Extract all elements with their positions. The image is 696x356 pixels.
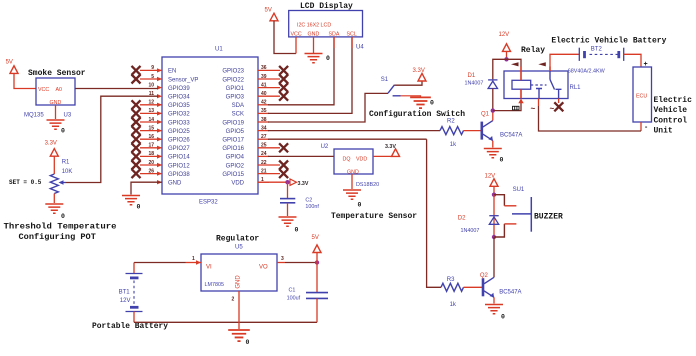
wire buzzer top lead end (504, 205, 516, 207)
svg-text:I2C 16X2 LCD: I2C 16X2 LCD (297, 22, 331, 28)
svg-text:GPIO34: GPIO34 (168, 95, 190, 101)
svg-text:U1: U1 (215, 47, 223, 53)
svg-text:26: 26 (148, 168, 154, 174)
svg-text:Electric Vehicle Battery: Electric Vehicle Battery (551, 37, 666, 46)
svg-text:Temperature Sensor: Temperature Sensor (331, 212, 417, 221)
wire relay common to BT2 (550, 54, 579, 66)
switch S1 (388, 85, 401, 96)
wire GPIO17 net vertical (427, 139, 441, 287)
svg-text:Threshold Temperature: Threshold Temperature (4, 222, 117, 232)
svg-text:12: 12 (148, 100, 154, 106)
power symbol 12V relay (503, 44, 511, 52)
U1 right pin GPIO23 (222, 65, 280, 75)
svg-text:D1: D1 (468, 73, 476, 79)
svg-text:Regulator: Regulator (216, 235, 259, 244)
U1 left pin GPIO33 (140, 117, 190, 127)
svg-text:34: 34 (261, 125, 267, 131)
svg-text:VCC: VCC (38, 87, 49, 93)
ground C2 (279, 217, 297, 226)
junction 12V relay node (504, 57, 508, 61)
R1 wiper arrow (60, 182, 66, 184)
svg-text:18: 18 (148, 151, 154, 157)
svg-text:Smoke Sensor: Smoke Sensor (28, 69, 86, 78)
wire relay NC stub (558, 99, 560, 104)
svg-text:MQ135: MQ135 (24, 113, 44, 119)
wire buzzer bottom lead corner (494, 224, 504, 237)
wire U5 GND to ground (238, 291, 240, 329)
wire node to C1 top (316, 263, 318, 293)
wire BT2 to ECU + (624, 54, 641, 67)
svg-text:25: 25 (261, 143, 267, 149)
svg-text:9: 9 (151, 65, 154, 71)
wire U4 SCL to U1 SCK (268, 37, 352, 114)
wire Q1 emitter to ground (492, 141, 494, 148)
wire VI stub (186, 262, 202, 264)
svg-text:GND: GND (347, 170, 359, 176)
svg-text:SCL: SCL (347, 32, 357, 38)
svg-text:DQ: DQ (343, 156, 351, 162)
wire Q1 collector up (492, 111, 494, 121)
svg-text:BT2: BT2 (591, 46, 603, 52)
svg-text:C2: C2 (305, 197, 312, 203)
battery BT1 (126, 274, 143, 312)
U1 left pin GPIO34 (149, 91, 191, 101)
wire R1 bottom to ground (53, 194, 55, 204)
U1 left pin GPIO39 (148, 82, 190, 92)
wire ECU - lead (640, 122, 642, 131)
power symbol 5V regulator output (313, 245, 321, 253)
svg-text:GPIO5: GPIO5 (226, 129, 245, 135)
resistor R3 (441, 283, 464, 291)
wire U2 GND stub (351, 174, 353, 189)
svg-text:R2: R2 (447, 118, 455, 124)
U1 right pin SCK (232, 108, 269, 118)
svg-text:Control: Control (654, 116, 688, 125)
transistor Q2 (BC547A) (483, 277, 494, 297)
wire buzzer bottom lead end (504, 223, 516, 225)
svg-text:14: 14 (148, 117, 154, 123)
svg-text:GPIO33: GPIO33 (168, 120, 190, 126)
no-connect X U1 pin 41 (GPIO1) (279, 83, 288, 92)
wire D1 anode to Q1 collector node (492, 89, 494, 111)
diode D2 (489, 216, 498, 225)
svg-text:BUZZER: BUZZER (534, 212, 563, 221)
svg-text:1: 1 (192, 256, 195, 262)
transistor Q1 (BC547A) (482, 121, 493, 141)
svg-text:DS18B20: DS18B20 (356, 182, 379, 188)
svg-text:GND: GND (236, 275, 242, 289)
svg-text:GPIO22: GPIO22 (222, 77, 244, 83)
no-connect X U1 pin 5 (Sensor_VP) (132, 75, 141, 84)
svg-text:5V: 5V (265, 8, 272, 14)
svg-text:3.3V: 3.3V (298, 181, 309, 187)
wire 12V stem (506, 51, 508, 59)
wire U1 VDD to 3.3V node (258, 181, 286, 183)
no-connect X U1 pin 40 (GPIO3) (279, 92, 288, 101)
svg-text:0: 0 (61, 213, 65, 220)
U1 left pin GPIO27 (140, 143, 190, 153)
wire 3.3V to R1 top (53, 156, 55, 174)
wire U4 GND stub (313, 37, 315, 53)
LCD display U4 body (289, 11, 363, 37)
svg-text:GPIO19: GPIO19 (222, 120, 244, 126)
relay RL1 coil-contact link (dashed) (531, 84, 547, 86)
junction VDD/C2 node (285, 180, 289, 184)
no-connect X U1 pin 25 (GPIO16) (279, 143, 288, 152)
power symbol 5V smoke sensor (10, 66, 18, 74)
ground regulator U5 (228, 330, 250, 341)
junction buzzer bottom node (492, 235, 496, 239)
wire U3 GND stub (55, 105, 57, 119)
wire U1 GPIO17 to buzzer net (268, 138, 427, 140)
svg-text:Q1: Q1 (481, 111, 490, 117)
wire VO stub (277, 262, 285, 264)
svg-text:SET = 0.5: SET = 0.5 (9, 179, 42, 186)
junction buzzer top node (492, 193, 496, 197)
svg-text:GPIO1: GPIO1 (226, 86, 245, 92)
power symbol 3.3V temp sensor (392, 149, 400, 157)
no-connect X U1 pin 36 (GPIO23) (279, 66, 288, 75)
svg-text:36: 36 (261, 65, 267, 71)
svg-text:GPIO38: GPIO38 (168, 172, 190, 178)
svg-text:100uf: 100uf (287, 296, 301, 302)
wire 5V stem (316, 253, 318, 263)
ground LCD (305, 54, 323, 63)
svg-text:3: 3 (281, 256, 284, 262)
wire U4 SCL stub (351, 37, 353, 48)
svg-text:35: 35 (261, 108, 267, 114)
svg-text:~: ~ (531, 105, 536, 114)
battery BT2 (579, 48, 623, 61)
svg-text:10: 10 (148, 82, 154, 88)
svg-text:68V40A/2.4KW: 68V40A/2.4KW (568, 68, 606, 74)
svg-text:RL1: RL1 (570, 85, 582, 91)
svg-text:GND: GND (168, 181, 182, 187)
U1 right pin GPIO19 (222, 117, 269, 127)
wire R2 to Q1 base (464, 130, 482, 132)
svg-text:R3: R3 (447, 277, 455, 283)
svg-text:Unit: Unit (654, 126, 673, 135)
wire ECU - to relay NO (539, 106, 642, 131)
svg-text:0: 0 (358, 202, 362, 209)
svg-text:39: 39 (261, 74, 267, 80)
power symbol 3.3V U1 VDD (290, 179, 297, 185)
svg-text:1k: 1k (450, 142, 457, 148)
no-connect X relay NC pin (554, 102, 563, 111)
no-connect X U1 pin 13 (GPIO32) (132, 109, 141, 118)
wire U2 VDD to 3.3V (373, 155, 392, 157)
relay RL1 coil pins (520, 67, 522, 99)
U1 right pin SDA (232, 100, 269, 110)
svg-text:1k: 1k (450, 302, 457, 308)
no-connect X U1 pin 21 (GPIO15) (279, 169, 288, 178)
no-connect X U1 pin 15 (GPIO25) (132, 126, 141, 135)
wire U3 A0 to U1 GPIO39 (75, 88, 158, 90)
svg-text:VDD: VDD (356, 156, 367, 162)
wire S1 to 3.3V (395, 81, 423, 85)
svg-text:Sensor_VP: Sensor_VP (168, 77, 198, 83)
svg-text:Electric: Electric (654, 96, 693, 105)
no-connect X U1 pin 39 (GPIO22) (279, 75, 288, 84)
wire buzzer node to Q2 collector (493, 237, 495, 277)
U1 left pin GPIO35 (140, 100, 190, 110)
wire S1 to ground (401, 96, 421, 97)
U1 left pin GND (157, 180, 182, 187)
wire relay NO stub (538, 99, 540, 107)
svg-text:U4: U4 (356, 45, 364, 51)
svg-text:10K: 10K (62, 169, 73, 175)
svg-text:5: 5 (151, 74, 154, 80)
svg-text:EN: EN (168, 69, 176, 75)
svg-text:0: 0 (501, 314, 505, 321)
svg-text:BC547A: BC547A (499, 290, 521, 296)
svg-text:GPIO35: GPIO35 (168, 103, 190, 109)
no-connect X U1 pin 20 (GPIO12) (132, 161, 141, 170)
U1 right pin VDD (231, 177, 269, 187)
svg-text:S1: S1 (381, 77, 389, 83)
U1 right pin GPIO3 (226, 91, 280, 101)
wire U4 SDA to U1 SDA (268, 37, 334, 105)
svg-text:42: 42 (261, 100, 267, 106)
wire 12V to D1 cathode (493, 59, 507, 79)
svg-text:GPIO39: GPIO39 (168, 86, 190, 92)
svg-text:20: 20 (148, 160, 154, 166)
svg-text:0: 0 (430, 100, 434, 107)
relay RL1 body (504, 71, 568, 99)
svg-text:~: ~ (550, 105, 555, 114)
U1 right pin GPIO17 (222, 134, 269, 144)
U1 right pin GPIO5 (226, 125, 269, 135)
U1 left pin GPIO32 (140, 108, 190, 118)
svg-text:Q2: Q2 (480, 273, 489, 279)
svg-text:1N4007: 1N4007 (461, 228, 480, 234)
U1 left pin GPIO26 (140, 134, 190, 144)
svg-text:3.3V: 3.3V (413, 68, 425, 74)
wire 5V to U3 VCC (14, 73, 36, 88)
wire U1 GPIO19 to S1 (268, 93, 388, 122)
svg-text:LM7805: LM7805 (205, 282, 224, 288)
wire U1 GPIO5 to R2 (268, 130, 440, 132)
potentiometer R1 (50, 174, 58, 194)
svg-text:38: 38 (261, 117, 267, 123)
svg-text:GPIO26: GPIO26 (168, 138, 190, 144)
svg-text:ECU: ECU (636, 94, 647, 100)
svg-text:15: 15 (148, 125, 154, 131)
svg-text:Configuring POT: Configuring POT (19, 232, 96, 242)
svg-text:Portable Battery: Portable Battery (92, 322, 168, 331)
power symbol 12V buzzer (490, 179, 498, 187)
svg-text:22: 22 (261, 160, 267, 166)
capacitor C2 (280, 199, 295, 203)
wire C2 bottom to ground (287, 203, 289, 216)
ECU body (633, 67, 652, 122)
svg-text:1N4007: 1N4007 (465, 81, 484, 87)
svg-text:17: 17 (148, 143, 154, 149)
no-connect X U1 pin 18 (GPIO14) (132, 152, 141, 161)
wire BT1 bottom lead (133, 312, 135, 323)
svg-text:5V: 5V (312, 235, 319, 241)
svg-text:SDA: SDA (232, 103, 244, 109)
svg-text:D2: D2 (458, 216, 466, 222)
svg-text:A0: A0 (56, 87, 63, 93)
svg-text:3.3V: 3.3V (45, 141, 57, 147)
temperature sensor U2 body (334, 149, 373, 174)
svg-text:BC547A: BC547A (500, 133, 522, 139)
wire U1 GND to ground (131, 182, 162, 194)
wire U4 SDA stub (333, 37, 335, 48)
relay RL1 pin arrow (coil-) (518, 99, 523, 104)
IC U1 ESP32 body (162, 57, 258, 194)
wire 5V to U4 VCC (274, 21, 296, 54)
svg-text:16: 16 (148, 134, 154, 140)
svg-text:12V: 12V (499, 32, 510, 38)
svg-text:0: 0 (295, 227, 299, 234)
svg-text:GPIO14: GPIO14 (168, 155, 190, 161)
wire 12V stem (buzzer) (493, 186, 495, 194)
wire C1 bottom to rail (316, 298, 318, 322)
svg-text:LCD Display: LCD Display (300, 2, 353, 11)
regulator U5 body (201, 254, 277, 291)
wire buzzer top lead corner (494, 195, 504, 206)
svg-text:SDA: SDA (329, 32, 340, 38)
svg-text:GPIO17: GPIO17 (222, 138, 244, 144)
U1 left pin GPIO14 (140, 151, 190, 161)
smoke sensor U3 body (36, 78, 75, 105)
resistor R2 (440, 127, 464, 135)
svg-text:GPIO4: GPIO4 (226, 155, 245, 161)
svg-text:0: 0 (500, 157, 504, 164)
relay RL1 pin direction arrows (511, 62, 546, 66)
diode D1 (488, 80, 497, 89)
svg-text:2: 2 (232, 297, 235, 303)
svg-text:40: 40 (261, 91, 267, 97)
svg-text:U5: U5 (235, 245, 243, 251)
svg-text:+: + (644, 61, 648, 69)
U1 left pin GPIO25 (140, 125, 190, 135)
no-connect X U1 pin 9 (EN) (132, 66, 141, 75)
svg-text:3.3V: 3.3V (385, 144, 396, 150)
svg-text:U3: U3 (64, 113, 72, 119)
svg-text:21: 21 (261, 168, 267, 174)
wire U1 GPIO4 to U2 DQ (268, 155, 334, 157)
U1 left pin EN (140, 65, 176, 75)
ground pot R1 (45, 204, 63, 213)
svg-text:GPIO23: GPIO23 (222, 69, 244, 75)
svg-text:13: 13 (148, 108, 154, 114)
svg-text:SU1: SU1 (513, 187, 525, 193)
no-connect X U1 pin 16 (GPIO26) (132, 135, 141, 144)
wire R3 to Q2 base (464, 286, 483, 288)
svg-text:SCK: SCK (232, 112, 244, 118)
svg-text:GPIO25: GPIO25 (168, 129, 190, 135)
svg-text:GPIO32: GPIO32 (168, 112, 190, 118)
U1 right pin GPIO1 (226, 82, 280, 92)
svg-text:VI: VI (206, 265, 212, 271)
wire BT1 + to U5 VI (134, 262, 186, 264)
svg-text:Vehicle: Vehicle (654, 106, 688, 115)
no-connect X U1 pin 26 (GPIO38) (132, 169, 141, 178)
ground smoke sensor (47, 120, 65, 129)
U1 left pin GPIO12 (140, 160, 190, 170)
capacitor C1 (306, 293, 328, 299)
svg-text:5V: 5V (6, 60, 13, 66)
svg-text:41: 41 (261, 82, 267, 88)
ground Q1 emitter (484, 149, 502, 158)
U1 right pin GPIO15 (222, 168, 280, 178)
svg-text:BT1: BT1 (119, 289, 131, 295)
wire node to C2 top (287, 182, 289, 198)
svg-text:0: 0 (61, 128, 65, 135)
wire U4 VCC stub (295, 37, 297, 54)
relay RL1 coil (512, 80, 531, 89)
no-connect X U1 pin 14 (GPIO33) (132, 118, 141, 127)
svg-text:GPIO15: GPIO15 (222, 172, 244, 178)
wire node to relay coil- (493, 102, 521, 111)
svg-text:GND: GND (50, 100, 62, 106)
svg-text:C1: C1 (289, 288, 296, 294)
junction D1/Q1/coil node (491, 108, 495, 112)
svg-text:GPIO27: GPIO27 (168, 146, 190, 152)
wire D2 column (493, 195, 495, 237)
relay RL1 contact pole (536, 71, 562, 99)
U1 left pin GPIO38 (140, 168, 190, 178)
U1 right pin GPIO4 (226, 151, 269, 161)
svg-text:VO: VO (259, 265, 268, 271)
svg-text:0: 0 (326, 55, 330, 62)
svg-text:0: 0 (246, 339, 250, 346)
svg-text:R1: R1 (62, 160, 70, 166)
U1 right pin GPIO2 (226, 160, 280, 170)
ground temp sensor (343, 190, 361, 199)
junction VO/C1/5V node (315, 260, 319, 264)
svg-text:-: - (644, 124, 648, 132)
wire U5 VO to 5V node (285, 262, 317, 264)
relay RL1 pin marks (513, 106, 520, 110)
svg-text:GPIO3: GPIO3 (226, 95, 245, 101)
buzzer SU1 (512, 197, 531, 232)
no-connect X U1 pin 12 (GPIO35) (132, 100, 141, 109)
svg-text:GPIO12: GPIO12 (168, 163, 190, 169)
U1 left pin Sensor_VP (140, 74, 198, 84)
svg-text:Relay: Relay (521, 46, 545, 55)
wire bottom rail BT1- to C1 (134, 321, 317, 323)
wire 12V to relay coil+ (507, 59, 522, 66)
svg-text:0: 0 (137, 204, 141, 211)
wire BT1 top lead (133, 263, 135, 274)
power symbol 3.3V switch (418, 73, 426, 81)
wire R1 wiper to U1 GPIO34 (66, 96, 158, 182)
power symbol 5V LCD (270, 13, 278, 21)
svg-text:24: 24 (261, 151, 267, 157)
wire Q2 emitter to ground (493, 297, 495, 303)
svg-text:VDD: VDD (231, 181, 244, 187)
svg-text:ESP32: ESP32 (199, 200, 218, 206)
svg-text:VCC: VCC (291, 32, 302, 38)
svg-text:GND: GND (308, 32, 320, 38)
svg-text:GPIO2: GPIO2 (226, 163, 245, 169)
svg-text:12V: 12V (120, 298, 131, 304)
no-connect X U1 pin 22 (GPIO2) (279, 161, 288, 170)
relay RL1 contact pins (549, 67, 551, 72)
ground switch S1 (410, 97, 431, 108)
svg-text:100nf: 100nf (305, 204, 319, 210)
ground U1 GND (122, 196, 140, 205)
U1 right pin GPIO16 (222, 143, 280, 153)
power symbol 3.3V pot (50, 149, 58, 157)
no-connect X U1 pin 17 (GPIO27) (132, 143, 141, 152)
svg-text:GPIO16: GPIO16 (222, 146, 244, 152)
svg-text:U2: U2 (321, 144, 329, 150)
